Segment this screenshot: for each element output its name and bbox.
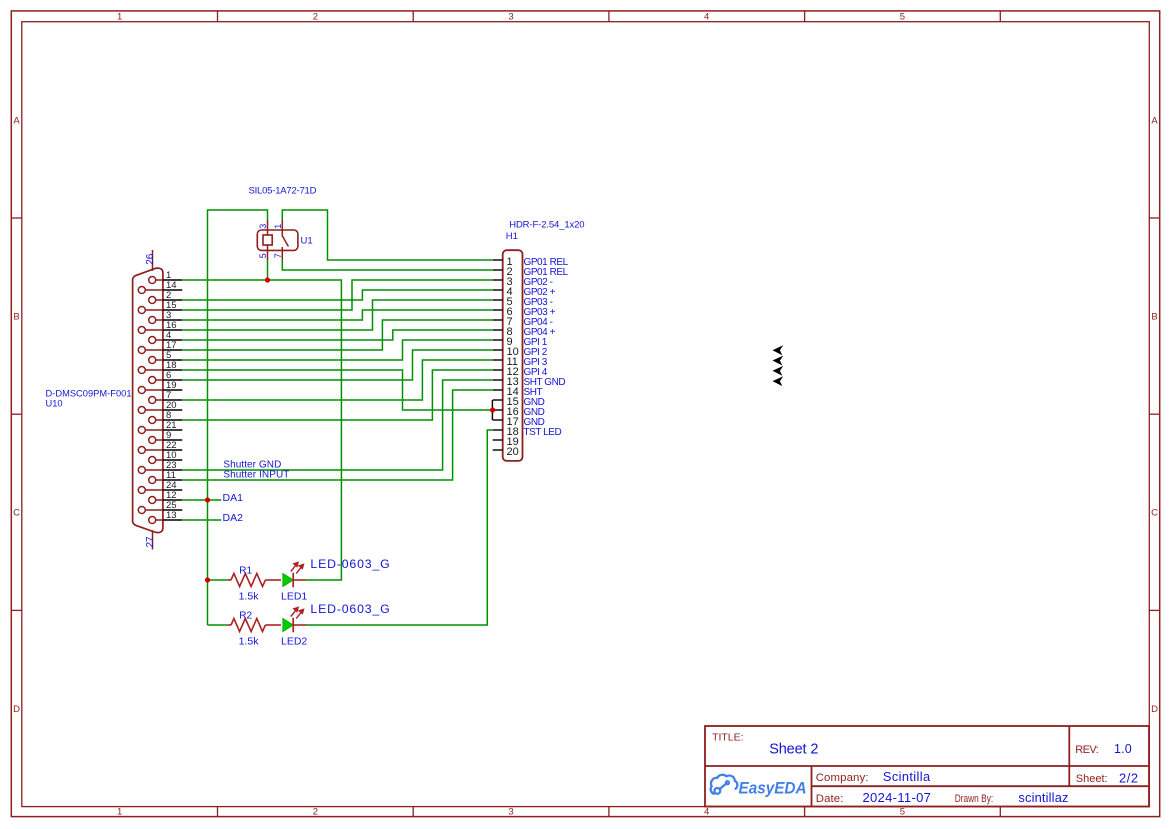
svg-text:HDR-F-2.54_1x20: HDR-F-2.54_1x20 [509, 220, 584, 231]
connector U10 pin 20 [138, 400, 182, 413]
svg-text:Sheet 2: Sheet 2 [769, 741, 818, 757]
svg-text:D: D [1151, 704, 1158, 715]
svg-text:EasyEDA: EasyEDA [739, 779, 807, 798]
svg-text:C: C [1151, 508, 1158, 519]
header H1 pin 7 [493, 316, 553, 328]
header H1 pin 8 [493, 326, 556, 338]
svg-text:Company:: Company: [816, 772, 869, 784]
header H1 body [503, 250, 523, 461]
wire relay pin7 to H1 pin2 [282, 260, 492, 271]
connector U10 pin 16 [138, 320, 182, 333]
LED LED2 [281, 602, 390, 648]
connector U10 pin 13 [149, 510, 183, 523]
relay U1 pin 1 lead [281, 220, 283, 237]
svg-text:R2: R2 [239, 610, 252, 621]
relay U1 body [257, 230, 298, 250]
wire H1 pin8 to DSUB pin4 [182, 330, 492, 340]
connector U10 reference label [46, 389, 132, 409]
wire relay pin5 to junction [267, 260, 269, 281]
junction relay pin5 / DSUB pin1 [265, 277, 270, 282]
resistor R1 [227, 565, 281, 602]
svg-text:H1: H1 [506, 231, 518, 242]
svg-text:2: 2 [313, 12, 318, 23]
connector U10 pin 1 [149, 270, 183, 283]
svg-text:SIL05-1A72-71D: SIL05-1A72-71D [249, 185, 317, 196]
wire H1 pin14 to Shutter INPUT [182, 390, 492, 480]
wire R1 left feed [208, 579, 228, 581]
connector U10 mounting pin 27 [152, 530, 154, 549]
svg-text:3: 3 [508, 12, 513, 23]
title block border lines [705, 726, 1149, 807]
svg-text:5: 5 [258, 253, 268, 258]
connector U10 D-DMSC09PM-F001 outline [133, 268, 163, 532]
wire DSUB pin1 row to LED1 drop [182, 280, 341, 580]
svg-text:D: D [13, 704, 20, 715]
wire H1 pin5 to DSUB pin16 [182, 300, 492, 330]
EasyEDA logo cloud icon [711, 775, 738, 794]
header H1 pin 3 [493, 276, 553, 288]
svg-text:13: 13 [166, 510, 177, 521]
header H1 pin 10 [493, 346, 548, 358]
svg-text:5: 5 [900, 807, 905, 818]
svg-text:C: C [13, 508, 20, 519]
svg-text:1.0: 1.0 [1114, 742, 1132, 756]
svg-text:1.5k: 1.5k [239, 636, 260, 648]
svg-text:2024-11-07: 2024-11-07 [863, 790, 931, 805]
header H1 pin 19 [493, 436, 519, 448]
wire H1 pin7 to DSUB pin17 [182, 320, 492, 350]
junction R1 feed [205, 577, 210, 582]
svg-text:1: 1 [117, 807, 122, 818]
wire H1 pin3 to DSUB pin15 [182, 280, 492, 310]
svg-text:Shutter INPUT: Shutter INPUT [223, 470, 289, 481]
svg-text:A: A [1151, 115, 1158, 126]
svg-text:D-DMSC09PM-F001: D-DMSC09PM-F001 [46, 389, 132, 399]
frame row labels A-D [13, 115, 1158, 715]
relay U1 coil [263, 235, 272, 245]
svg-text:3: 3 [258, 224, 268, 229]
junction DA1 [205, 497, 210, 502]
svg-text:4: 4 [704, 12, 709, 23]
svg-text:1: 1 [117, 12, 122, 23]
connector U10 mounting pin 26 [152, 250, 154, 271]
svg-text:7: 7 [273, 253, 283, 258]
svg-text:Scintilla: Scintilla [883, 769, 931, 784]
connector U10 pin 14 [138, 280, 182, 293]
frame row tick marks [11, 218, 1159, 610]
svg-text:scintillaz: scintillaz [1018, 790, 1068, 805]
svg-text:TST LED: TST LED [524, 427, 562, 438]
wire H1 pin13 to Shutter GND [182, 380, 492, 470]
header H1 pin 9 [493, 336, 548, 348]
frame column labels 1-5 [117, 12, 905, 818]
header H1 GND bracket pins 15-17 [491, 400, 493, 420]
svg-text:DA2: DA2 [223, 512, 244, 524]
svg-text:REV:: REV: [1075, 744, 1098, 756]
relay U1 pin 7 lead [281, 247, 283, 260]
header H1 pin 13 [493, 376, 566, 388]
wire DA1 stub [182, 499, 221, 501]
header H1 pin 18 [493, 426, 562, 438]
svg-text:26: 26 [145, 253, 156, 265]
header H1 pin 15 [493, 396, 545, 408]
svg-text:LED1: LED1 [281, 591, 307, 603]
pointer arrow 3 [773, 366, 784, 376]
connector U10 pin 21 [138, 420, 182, 433]
svg-text:U1: U1 [301, 236, 313, 247]
svg-text:2: 2 [313, 807, 318, 818]
header H1 pin 12 [493, 366, 548, 378]
LED LED1 [281, 557, 390, 603]
relay U1 pin 3 lead [267, 220, 269, 235]
connector U10 pin 5 [149, 350, 183, 363]
connector U10 pin 6 [149, 370, 183, 383]
connector U10 pin 10 [149, 450, 183, 463]
connector U10 pin 19 [138, 380, 182, 393]
connector U10 pin 8 [149, 410, 183, 423]
header H1 pin 6 [493, 306, 556, 318]
header H1 pin 11 [493, 356, 548, 368]
wire H1 pin9 to DSUB pin5 [182, 340, 492, 360]
header H1 pin 20 [493, 446, 519, 458]
wire H1 pin12 to DSUB pin8 [182, 370, 492, 420]
connector U10 pin 12 [149, 490, 183, 503]
svg-text:Drawn By:: Drawn By: [955, 793, 994, 805]
connector U10 pin 11 [149, 470, 183, 483]
wire R2 left feed [208, 624, 228, 626]
header H1 pin 2 [493, 266, 569, 278]
connector U10 pin 4 [149, 330, 183, 343]
wire DA2 stub [182, 519, 221, 521]
connector U10 pin 9 [149, 430, 183, 443]
svg-text:A: A [13, 115, 20, 126]
wire H1 pin10 to DSUB pin18... pin6 [182, 350, 492, 380]
wire H1 pin4 to DSUB pin2 [182, 290, 492, 300]
svg-text:TITLE:: TITLE: [712, 732, 743, 744]
svg-text:B: B [1151, 312, 1157, 323]
wire relay pin1 to H1 pin1 [282, 210, 492, 260]
svg-text:1.5k: 1.5k [239, 591, 260, 603]
svg-text:3: 3 [508, 807, 513, 818]
resistor R2 [227, 610, 281, 647]
pointer arrow 2 [773, 356, 784, 366]
header H1 pin 16 [493, 406, 545, 418]
header H1 pin 4 [493, 286, 556, 298]
wire LED2 to H1 pin18 [306, 430, 493, 625]
wire H1 pin16 GND to DSUB pin18 [182, 370, 492, 410]
wire H1 pin6 to DSUB pin3 [182, 310, 492, 320]
connector U10 pin 7 [149, 390, 183, 403]
svg-text:R1: R1 [239, 565, 252, 576]
connector U10 pin 25 [138, 500, 182, 513]
relay U1 switch blade [282, 236, 288, 247]
wire relay pin3 to vertical bus [208, 210, 268, 625]
connector U10 pin 2 [149, 290, 183, 303]
svg-text:1: 1 [273, 224, 283, 229]
svg-text:U10: U10 [46, 399, 63, 409]
connector U10 pin 17 [138, 340, 182, 353]
pointer arrow 4 [773, 376, 784, 386]
connector U10 pin 23 [138, 460, 182, 473]
svg-text:B: B [13, 312, 19, 323]
connector U10 pin 18 [138, 360, 182, 373]
relay U1 pin 5 lead [267, 245, 269, 260]
frame column tick marks [218, 11, 1001, 817]
pointer arrow 1 [773, 345, 784, 355]
svg-text:LED-0603_G: LED-0603_G [310, 557, 389, 571]
svg-text:LED-0603_G: LED-0603_G [310, 602, 389, 616]
junction H1 pin16 GND [490, 407, 495, 412]
header H1 pin 5 [493, 296, 553, 308]
header H1 pin 1 [493, 256, 569, 268]
svg-text:5: 5 [900, 12, 905, 23]
header H1 pin 17 [493, 416, 545, 428]
svg-text:20: 20 [507, 446, 519, 458]
connector U10 pin 3 [149, 310, 183, 323]
svg-text:Date:: Date: [816, 793, 844, 805]
svg-text:27: 27 [145, 536, 156, 548]
connector U10 pin 22 [138, 440, 182, 453]
svg-text:Sheet:: Sheet: [1076, 773, 1108, 785]
svg-text:LED2: LED2 [281, 636, 307, 648]
header H1 pin 14 [493, 386, 543, 398]
svg-text:DA1: DA1 [223, 492, 244, 504]
svg-text:4: 4 [704, 807, 709, 818]
wire H1 pin11 to DSUB pin7 [182, 360, 492, 400]
connector U10 pin 15 [138, 300, 182, 313]
svg-text:2/2: 2/2 [1119, 771, 1138, 786]
connector U10 pin 24 [138, 480, 182, 493]
